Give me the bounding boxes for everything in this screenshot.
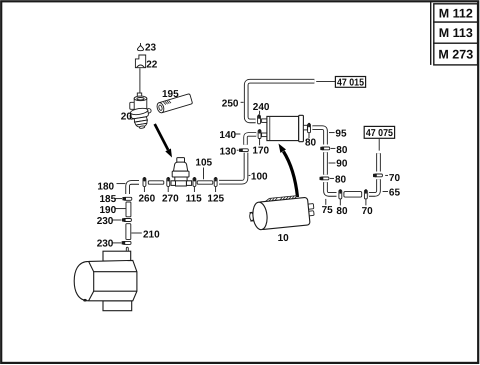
svg-text:75: 75 (322, 205, 334, 216)
engine code box M 273 (434, 43, 478, 65)
label 80 at canister right (305, 133, 317, 149)
svg-text:80: 80 (335, 175, 347, 186)
label 240 (253, 102, 270, 114)
engine code box M 112 (434, 4, 478, 22)
svg-text:20: 20 (121, 112, 133, 123)
pipe 250 (246, 81, 314, 121)
canister bottom-left nipple (262, 133, 267, 137)
svg-text:170: 170 (252, 145, 269, 156)
connector 230 upper (122, 218, 131, 221)
label 170 (252, 139, 269, 157)
svg-text:100: 100 (251, 172, 268, 183)
tube 195 (156, 94, 193, 114)
svg-text:130: 130 (220, 146, 237, 157)
connector 185 (122, 197, 131, 200)
svg-text:260: 260 (139, 193, 156, 204)
elbow 75 (326, 182, 337, 194)
arrow 1 (valve 20 to valve 105) (155, 124, 172, 158)
svg-text:70: 70 (389, 173, 401, 184)
engine body (74, 260, 137, 300)
label 80 lower ring (330, 175, 347, 186)
svg-text:270: 270 (162, 193, 179, 204)
ring 130 (239, 149, 248, 152)
label 190 (100, 205, 126, 216)
canister end cap (299, 115, 304, 141)
hose 190 (126, 202, 131, 217)
svg-text:M 112: M 112 (439, 7, 473, 21)
label 80 bottom (336, 199, 348, 217)
svg-text:22: 22 (146, 60, 158, 71)
svg-text:90: 90 (336, 159, 348, 170)
elbow 140 (246, 134, 257, 144)
label 260 (139, 187, 156, 205)
connector 115 (193, 177, 196, 186)
label 140 (219, 130, 240, 141)
connector 80 bottom (339, 189, 342, 199)
hose 210 (126, 224, 131, 240)
wire stem from cap 22 to valve 20 (139, 68, 141, 93)
svg-text:47 015: 47 015 (337, 78, 364, 89)
label 185 (100, 194, 123, 205)
engine code table divider line (430, 2, 432, 65)
label 70 right column (385, 173, 400, 184)
label 125 (207, 187, 224, 205)
svg-text:47 075: 47 075 (366, 128, 393, 139)
ring 80 upper (320, 147, 329, 150)
svg-text:M 113: M 113 (439, 26, 473, 40)
svg-text:80: 80 (336, 145, 348, 156)
svg-text:80: 80 (336, 206, 348, 217)
part 23 plug (137, 43, 143, 51)
label 80 upper ring (331, 145, 348, 156)
hose 90 (323, 152, 328, 175)
connector 125 (214, 177, 217, 186)
svg-text:M 273: M 273 (438, 48, 473, 62)
svg-text:140: 140 (219, 130, 236, 141)
svg-text:95: 95 (335, 128, 347, 139)
label 250 (222, 99, 244, 110)
svg-text:65: 65 (389, 188, 401, 199)
hose segment 115-125 (197, 181, 213, 184)
label 70 bottom (362, 199, 374, 217)
svg-text:70: 70 (362, 206, 374, 217)
label 130 (220, 146, 239, 157)
connector 170 (258, 129, 261, 138)
svg-text:10: 10 (278, 233, 290, 244)
label 210 (131, 230, 160, 241)
engine code box M 113 (434, 22, 478, 43)
part 22 cap (135, 55, 145, 68)
svg-text:23: 23 (145, 43, 157, 54)
cylinder 10 (248, 194, 315, 231)
connector 230 lower (122, 241, 131, 244)
connector 260 (143, 177, 146, 186)
label 115 (186, 187, 203, 205)
connector 270 (167, 177, 170, 186)
svg-text:195: 195 (162, 89, 179, 100)
arrow 2 (cylinder 10 to canister) (279, 144, 298, 198)
connector 240 (258, 114, 261, 123)
ring 70 right column (373, 174, 382, 177)
engine top mount tab (103, 251, 131, 261)
canister right nipple (303, 125, 307, 130)
engine drain dot (83, 299, 87, 302)
label 100 (249, 172, 268, 183)
canister body (267, 116, 299, 140)
label 230 lower (97, 238, 122, 249)
canister top-left nipple (262, 119, 267, 123)
label 180 (97, 182, 125, 193)
svg-text:125: 125 (207, 193, 224, 204)
label 105 (195, 158, 212, 180)
svg-text:105: 105 (195, 158, 212, 169)
connector 80 at canister right (308, 123, 311, 133)
label 230 upper (97, 216, 122, 227)
valve 105 body (171, 158, 192, 186)
valve 20 assembly (129, 93, 151, 130)
label 270 (162, 187, 179, 205)
pipe 100 (219, 153, 246, 183)
svg-text:80: 80 (305, 138, 317, 149)
hose to 47 075 (376, 153, 381, 171)
svg-text:185: 185 (100, 194, 117, 205)
ring 80 lower (320, 177, 329, 180)
hose segment 260-270 (148, 181, 164, 184)
hose segment bottom (344, 192, 362, 198)
svg-text:230: 230 (97, 238, 114, 249)
svg-text:240: 240 (253, 102, 270, 113)
connector 70 bottom (364, 189, 367, 199)
engine facet lines (89, 261, 137, 300)
svg-text:180: 180 (97, 182, 114, 193)
svg-text:210: 210 (143, 230, 160, 241)
label 95 (329, 128, 347, 139)
svg-text:230: 230 (97, 216, 114, 227)
engine inlet nipple (126, 247, 128, 251)
svg-text:190: 190 (100, 205, 117, 216)
label 65 (383, 188, 401, 199)
engine bottom mount tab (103, 301, 132, 311)
label 90 (329, 159, 348, 170)
label 47 075 box (364, 126, 394, 150)
label 75 (322, 199, 334, 216)
elbow 95 (312, 128, 325, 145)
elbow 65 (369, 179, 379, 194)
pipe elbow 180 (128, 182, 139, 194)
svg-text:250: 250 (222, 99, 239, 110)
label 47 015 box (316, 77, 365, 89)
svg-text:115: 115 (186, 193, 203, 204)
